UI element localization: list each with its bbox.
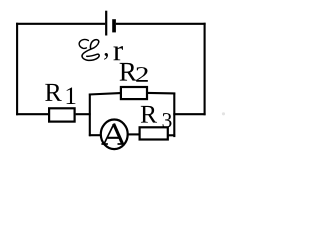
label script-E (EMF symbol) — [79, 39, 99, 60]
label R1 letter R — [45, 84, 62, 101]
wire: ammeter to R3 — [127, 133, 139, 135]
label R3 letter R — [141, 106, 157, 123]
wire: top side, left segment to battery — [16, 23, 105, 25]
ammeter A1 circle — [101, 120, 128, 150]
label R3 subscript 3 — [163, 113, 172, 127]
wire: R2 to parallel-section right edge — [148, 92, 176, 95]
resistor R1 box — [49, 108, 75, 121]
wire: right vertical side — [204, 23, 206, 115]
label R2 subscript 2 — [136, 67, 148, 82]
wire: R1 to parallel-section left node — [76, 113, 91, 115]
wire: bottom left to R1 — [16, 113, 49, 115]
wire: bottom branch into ammeter — [89, 134, 102, 136]
wire: left vertical side — [16, 23, 18, 115]
wire: parallel section to right side — [173, 113, 205, 115]
label comma after script-E — [104, 53, 108, 60]
wire: R3 to parallel-section right edge — [169, 134, 176, 136]
wire: top branch into R2 — [89, 93, 120, 94]
battery short thick plate — [112, 19, 116, 32]
battery long thin plate — [105, 11, 107, 36]
ammeter letter A — [101, 124, 125, 144]
wire: parallel section left edge — [89, 94, 91, 137]
wire: top side, right segment from battery — [116, 23, 206, 25]
faint scan smudge at right edge — [222, 112, 225, 115]
label r internal resistance — [114, 46, 123, 60]
resistor R3 box — [140, 127, 168, 139]
resistor R2 box — [121, 87, 147, 99]
label R1 subscript 1 — [67, 87, 76, 104]
wire: parallel section right edge — [173, 93, 175, 138]
label R2 letter R — [120, 63, 137, 81]
